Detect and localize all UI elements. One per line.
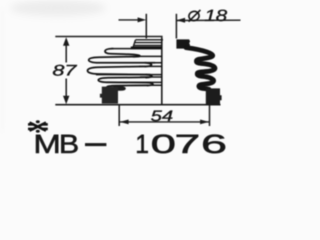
dim phi18 diameter symbol — [188, 10, 200, 22]
valley 4-5 — [148, 83, 154, 86]
svg-text:6: 6 — [201, 129, 227, 158]
reference mark (kome-jirushi) — [28, 120, 48, 132]
dim 54 left extension line — [118, 105, 120, 126]
svg-text:1: 1 — [135, 129, 149, 158]
dim 54 right extension line — [209, 105, 211, 126]
svg-text:7: 7 — [175, 129, 201, 158]
convolution 1 hook — [105, 49, 140, 57]
centerline — [161, 37, 163, 104]
svg-text:B: B — [59, 129, 79, 158]
dim 54 dimension line with outward arrows — [119, 120, 209, 125]
convolution 3 hook and slopes — [88, 66, 151, 74]
convolution 5 into clamp — [107, 85, 148, 87]
dim 87 extension line top — [55, 36, 162, 38]
boot bottom line (87 dim bottom extension) — [55, 104, 220, 106]
svg-text:0: 0 — [151, 129, 176, 158]
convolution 4 hook and slopes — [98, 77, 151, 82]
dash — [85, 143, 106, 146]
bottom left clamp block — [100, 87, 118, 104]
right bellows section squiggle — [186, 48, 215, 90]
boot neck shoulder flange (thick) — [131, 47, 162, 50]
dim 87 vertical line with arrows — [63, 37, 69, 104]
neck right section block — [176, 39, 190, 48]
bottom left clamp lip — [114, 86, 126, 91]
dim phi18 right extension line — [175, 14, 177, 39]
valley 2-3 — [145, 63, 152, 67]
convolution 2 hook and slopes — [89, 57, 155, 63]
dim phi18 right arrow + leader under text — [177, 18, 241, 23]
bottom right clamp block — [206, 88, 222, 105]
svg-text:18: 18 — [204, 7, 227, 25]
boot left bellows: inner section lines to centerline — [96, 49, 162, 86]
part number MB-1076 — [33, 129, 227, 159]
boot left bellows zigzag outline — [88, 49, 156, 88]
boot neck left outline (clamp bands) — [133, 40, 163, 47]
svg-text:87: 87 — [52, 63, 77, 80]
svg-text:M: M — [33, 129, 60, 158]
valley 3-4 — [146, 75, 152, 78]
svg-text:54: 54 — [151, 108, 174, 125]
dim phi18 left extension line — [145, 14, 147, 39]
dim phi18 dimension line left tail + arrow — [119, 17, 147, 22]
